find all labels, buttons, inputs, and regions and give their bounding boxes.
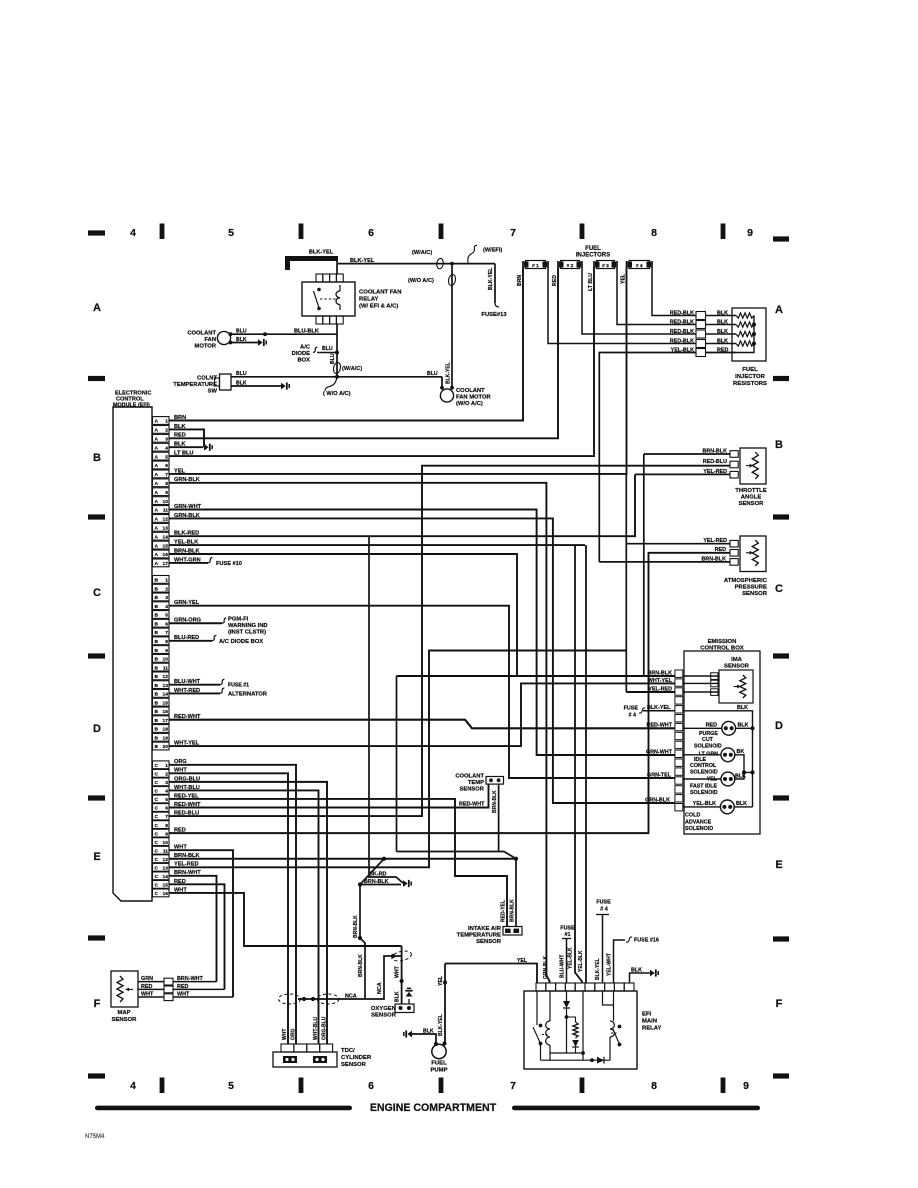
svg-text:B: B bbox=[155, 657, 159, 663]
IMA sensor connector bbox=[711, 673, 718, 696]
svg-text:BLU: BLU bbox=[330, 353, 336, 364]
svg-text:RELAY: RELAY bbox=[359, 297, 378, 303]
svg-text:7: 7 bbox=[165, 472, 168, 478]
svg-text:#1: #1 bbox=[565, 932, 571, 938]
atmospheric pressure sensor element bbox=[746, 540, 758, 566]
svg-text:B: B bbox=[155, 665, 159, 671]
svg-text:12: 12 bbox=[163, 517, 169, 523]
svg-text:A: A bbox=[155, 543, 159, 549]
EFI main relay box bbox=[524, 991, 637, 1069]
svg-text:BLK-YEL: BLK-YEL bbox=[595, 958, 601, 980]
svg-text:YEL-RED: YEL-RED bbox=[648, 686, 672, 692]
wire A12 GRN-BLK to cold advance solenoid bbox=[169, 513, 675, 803]
svg-text:B: B bbox=[155, 595, 159, 601]
EFI main relay connector bbox=[536, 983, 634, 991]
svg-text:SENSOR: SENSOR bbox=[742, 591, 768, 597]
throttle angle sensor box bbox=[740, 448, 766, 484]
svg-text:( W/O A/C): ( W/O A/C) bbox=[323, 391, 351, 397]
svg-text:C: C bbox=[155, 823, 159, 829]
svg-text:GRN-YEL: GRN-YEL bbox=[174, 600, 200, 606]
svg-text:RED-YEL: RED-YEL bbox=[174, 793, 199, 799]
svg-text:11: 11 bbox=[163, 665, 168, 671]
wire YEL-BLK resistor row5 to atmospheric branch bbox=[599, 353, 696, 562]
svg-text:ALTERNATOR: ALTERNATOR bbox=[228, 691, 268, 697]
svg-text:6: 6 bbox=[165, 621, 168, 627]
TDC harness connector loops bbox=[279, 994, 340, 1004]
wire A14 BLK-RED to throttle sensor branch bbox=[169, 474, 635, 536]
svg-text:RED-BLU: RED-BLU bbox=[174, 810, 199, 816]
svg-text:YEL: YEL bbox=[438, 975, 444, 986]
svg-text:GRN-WHT: GRN-WHT bbox=[174, 504, 202, 510]
svg-text:9: 9 bbox=[743, 1080, 749, 1092]
svg-text:B: B bbox=[155, 718, 159, 724]
svg-text:C: C bbox=[93, 587, 101, 599]
wire BRN-BLK coolant temp sensor down bbox=[492, 784, 499, 851]
svg-text:BLK: BLK bbox=[395, 991, 401, 1002]
wire RED-YEL intake label bbox=[501, 900, 507, 922]
svg-text:SOLENOID: SOLENOID bbox=[690, 770, 718, 776]
svg-text:D: D bbox=[775, 720, 783, 732]
svg-text:COOLANT FAN: COOLANT FAN bbox=[359, 290, 402, 296]
svg-text:7: 7 bbox=[165, 630, 168, 636]
svg-text:14: 14 bbox=[163, 534, 169, 540]
TDC wire labels bbox=[282, 1016, 328, 1040]
wire C5 RED-YEL to intake air temp sensor bbox=[169, 793, 507, 927]
svg-text:A: A bbox=[155, 517, 159, 523]
svg-text:2: 2 bbox=[165, 428, 168, 434]
ground for coolant fan motor bbox=[258, 339, 266, 346]
svg-text:RED: RED bbox=[141, 984, 152, 990]
svg-text:B: B bbox=[775, 439, 783, 451]
svg-text:YEL-RED: YEL-RED bbox=[174, 862, 199, 868]
svg-text:BRN-BLK: BRN-BLK bbox=[701, 556, 726, 562]
coolant fan relay label bbox=[359, 290, 402, 310]
svg-text:YEL-WHT: YEL-WHT bbox=[607, 953, 613, 976]
svg-text:YEL: YEL bbox=[621, 273, 627, 284]
svg-text:C: C bbox=[155, 797, 159, 803]
svg-text:RED-WHT: RED-WHT bbox=[174, 802, 201, 808]
wire YEL-RED interconnect bbox=[625, 474, 627, 543]
svg-text:SENSOR: SENSOR bbox=[341, 1062, 367, 1068]
svg-text:BLU-WHT: BLU-WHT bbox=[560, 955, 566, 978]
svg-text:SOLENOID: SOLENOID bbox=[694, 744, 722, 750]
wire GRN-BLK label at emission box bbox=[645, 797, 670, 803]
svg-text:C: C bbox=[155, 814, 159, 820]
svg-text:A: A bbox=[155, 534, 159, 540]
svg-text:FUEL: FUEL bbox=[431, 1061, 447, 1067]
svg-text:WHT-YEL: WHT-YEL bbox=[174, 740, 200, 746]
connector W/A/C on BLU wire bbox=[333, 362, 363, 374]
svg-text:INJECTORS: INJECTORS bbox=[576, 253, 610, 259]
svg-text:B: B bbox=[155, 586, 159, 592]
svg-text:COLD: COLD bbox=[685, 813, 700, 819]
wire GRN-YEL label at emission box bbox=[647, 772, 672, 778]
svg-text:YEL-BLK: YEL-BLK bbox=[671, 348, 694, 354]
svg-text:RED-YEL: RED-YEL bbox=[501, 900, 507, 922]
svg-text:BRN-BLK: BRN-BLK bbox=[358, 954, 364, 977]
wire WHT oxygen sensor bbox=[395, 946, 404, 1004]
svg-text:BRN-BLK: BRN-BLK bbox=[702, 448, 727, 454]
wire A11 GRN-WHT to idle control solenoid bbox=[169, 504, 675, 755]
wire C14 BRN-WHT to MAP sensor bbox=[169, 870, 217, 981]
svg-text:# 4: # 4 bbox=[600, 907, 608, 913]
svg-text:RED: RED bbox=[174, 828, 186, 834]
svg-text:YEL-BLK: YEL-BLK bbox=[568, 947, 574, 969]
wire A5 LT BLU to injector 3 bbox=[169, 268, 594, 457]
wire BLK-YEL branch down to coolant fan motor W/O A/C bbox=[450, 262, 454, 388]
svg-text:8: 8 bbox=[165, 639, 168, 645]
svg-text:FUSE: FUSE bbox=[596, 900, 611, 906]
svg-text:INJECTOR: INJECTOR bbox=[735, 374, 765, 380]
svg-text:C: C bbox=[155, 789, 159, 795]
wire RED-BLU throttle label bbox=[703, 459, 727, 465]
svg-text:B: B bbox=[155, 744, 159, 750]
svg-text:13: 13 bbox=[163, 526, 169, 532]
TDC cylinder sensor bbox=[273, 1044, 372, 1068]
wire BRN-BLK intake sensor bbox=[510, 859, 517, 927]
svg-text:9: 9 bbox=[165, 490, 168, 496]
wire A3 RED to injector 2 bbox=[169, 268, 558, 439]
svg-text:WHT: WHT bbox=[174, 768, 187, 774]
IMA sensor element bbox=[734, 675, 746, 698]
fuse 13 label bbox=[481, 312, 507, 318]
svg-text:4: 4 bbox=[165, 789, 168, 795]
svg-text:YEL-BLK: YEL-BLK bbox=[174, 540, 198, 546]
wire A14 branch to ground BK-RD bbox=[369, 536, 403, 883]
fuel injector resistors box bbox=[732, 308, 766, 361]
svg-text:TEMPERATURE: TEMPERATURE bbox=[457, 933, 501, 939]
svg-text:8: 8 bbox=[651, 1080, 657, 1092]
fuse 4 tap at emission box bbox=[624, 705, 675, 718]
coolant fan relay coil bbox=[336, 285, 340, 310]
wire A1 BRN to injector 1 bbox=[169, 268, 523, 421]
svg-text:BLK: BLK bbox=[735, 773, 746, 779]
ground for A2/A4 bbox=[204, 444, 212, 451]
svg-text:RED-BLK: RED-BLK bbox=[670, 339, 694, 345]
svg-text:BLK-YEL: BLK-YEL bbox=[488, 267, 494, 290]
svg-text:BK: BK bbox=[737, 749, 745, 755]
svg-text:BRN-BLK: BRN-BLK bbox=[174, 548, 199, 554]
svg-text:B: B bbox=[155, 613, 159, 619]
coolant fan relay bottom connector bbox=[316, 316, 343, 324]
svg-text:4: 4 bbox=[165, 604, 168, 610]
svg-text:F: F bbox=[94, 998, 101, 1010]
wire C7 RED-BLU to throttle angle sensor bbox=[169, 466, 730, 817]
svg-text:BLK-YEL: BLK-YEL bbox=[446, 362, 452, 384]
electronic control module (EFI) label bbox=[113, 391, 151, 409]
svg-text:C: C bbox=[155, 780, 159, 786]
svg-text:9: 9 bbox=[165, 831, 168, 837]
wire YEL-RED IMA inside bbox=[648, 686, 719, 692]
ground for EFI main relay bbox=[650, 969, 658, 976]
wire BLU-BLK fan motor to relay bbox=[231, 329, 338, 337]
right margin dashes bbox=[773, 236, 789, 1078]
svg-text:10: 10 bbox=[163, 840, 169, 846]
svg-text:FAN MOTOR: FAN MOTOR bbox=[456, 395, 491, 401]
svg-text:ORG: ORG bbox=[174, 759, 187, 765]
svg-text:YEL-RED: YEL-RED bbox=[703, 469, 727, 475]
svg-text:EMISSION: EMISSION bbox=[708, 639, 737, 645]
wire YEL-BLK second into relay pin5 bbox=[578, 545, 586, 983]
svg-text:NCA: NCA bbox=[377, 982, 383, 994]
svg-text:FUSE #16: FUSE #16 bbox=[634, 938, 659, 944]
coolant fan motor W/O A/C bbox=[440, 362, 491, 407]
svg-text:BOX: BOX bbox=[297, 358, 310, 364]
ECM connector C pins C1-C16 bbox=[153, 761, 170, 897]
svg-text:PUMP: PUMP bbox=[430, 1068, 447, 1074]
svg-text:B: B bbox=[155, 604, 159, 610]
svg-text:7: 7 bbox=[510, 227, 516, 239]
svg-text:12: 12 bbox=[163, 857, 169, 863]
wire C6 RED-WHT to coolant temp sensor bbox=[169, 784, 489, 808]
svg-text:IDLE: IDLE bbox=[694, 757, 707, 763]
svg-text:FUSE: FUSE bbox=[560, 926, 575, 932]
fuel injector resistor elements bbox=[706, 313, 757, 353]
wire BLK-YEL fuel pump bbox=[438, 964, 447, 1045]
relay GRN-BLK label bbox=[543, 956, 549, 979]
corner mark bbox=[85, 1134, 105, 1140]
svg-text:ORG-BLU: ORG-BLU bbox=[322, 1016, 328, 1040]
atmospheric pressure sensor box bbox=[740, 536, 766, 572]
fuel injectors title bbox=[576, 246, 610, 259]
svg-text:B: B bbox=[155, 700, 159, 706]
coolant fan relay contacts bbox=[314, 288, 338, 311]
svg-text:RED-BLK: RED-BLK bbox=[670, 329, 694, 335]
wire BLU temp switch to fan motor W/O A/C bbox=[231, 371, 442, 379]
svg-text:B: B bbox=[93, 452, 101, 464]
svg-text:YEL: YEL bbox=[707, 777, 718, 783]
wire GRN-WHT label at emission box bbox=[646, 749, 673, 755]
wire B14 WHT-RED to alternator bbox=[169, 688, 220, 694]
svg-text:COLNT: COLNT bbox=[197, 376, 217, 382]
svg-text:6: 6 bbox=[165, 806, 168, 812]
svg-text:WHT-BLU: WHT-BLU bbox=[174, 785, 200, 791]
resistor pack wires bbox=[706, 316, 737, 353]
svg-text:TDC/: TDC/ bbox=[341, 1048, 355, 1054]
svg-text:DIODE: DIODE bbox=[292, 351, 310, 357]
svg-text:GRN: GRN bbox=[141, 976, 153, 982]
svg-text:4: 4 bbox=[130, 1080, 136, 1092]
svg-text:(INST CLSTR): (INST CLSTR) bbox=[228, 629, 266, 635]
resistor connector wire labels left bbox=[670, 311, 694, 354]
svg-text:5: 5 bbox=[165, 797, 168, 803]
svg-text:15: 15 bbox=[163, 883, 169, 889]
svg-text:BLK: BLK bbox=[236, 380, 247, 386]
svg-text:11: 11 bbox=[163, 848, 168, 854]
svg-text:C: C bbox=[155, 874, 159, 880]
svg-text:3: 3 bbox=[165, 780, 168, 786]
svg-text:SENSOR: SENSOR bbox=[460, 787, 485, 793]
wire A15 YEL-BLK to EFI main relay bbox=[169, 540, 585, 546]
svg-text:BRN-BLK: BRN-BLK bbox=[647, 670, 672, 676]
svg-text:B: B bbox=[155, 621, 159, 627]
svg-text:RED-WHT: RED-WHT bbox=[647, 723, 673, 729]
svg-text:19: 19 bbox=[163, 735, 169, 741]
alternator tap bbox=[220, 688, 268, 697]
svg-text:SOLENOID: SOLENOID bbox=[685, 826, 713, 832]
svg-text:BLK: BLK bbox=[423, 1028, 434, 1034]
wire RED MAP bbox=[138, 984, 164, 990]
coolant fan relay top connector bbox=[316, 274, 343, 282]
svg-text:WHT-GRN: WHT-GRN bbox=[174, 557, 201, 563]
wire NCA link bbox=[298, 954, 402, 1001]
svg-text:(W/O A/C): (W/O A/C) bbox=[408, 278, 434, 284]
svg-text:RED: RED bbox=[174, 879, 186, 885]
ground for fuel pump bbox=[404, 1030, 412, 1037]
svg-text:GRN-BLK: GRN-BLK bbox=[645, 797, 670, 803]
svg-text:SENSOR: SENSOR bbox=[476, 939, 502, 945]
coolant fan relay feed bar BLK-YEL bbox=[285, 250, 338, 271]
atmospheric pressure sensor label bbox=[724, 578, 768, 597]
svg-text:ANGLE: ANGLE bbox=[741, 495, 762, 501]
svg-text:C: C bbox=[155, 772, 159, 778]
wire A17 WHT-GRN to fuse 10 bbox=[169, 557, 208, 563]
wire B17 RED-WHT to purge cut solenoid bbox=[169, 714, 675, 728]
svg-text:BLU-BLK: BLU-BLK bbox=[294, 329, 319, 335]
svg-text:BLK-YEL: BLK-YEL bbox=[309, 250, 334, 256]
svg-text:SENSOR: SENSOR bbox=[112, 1017, 138, 1023]
wire WHT MAP right bbox=[173, 991, 233, 997]
svg-text:C: C bbox=[775, 583, 783, 595]
wire BRN-BLK throttle sensor bbox=[644, 448, 730, 454]
W/O A/C dangling connector bbox=[323, 377, 351, 397]
fuel injector resistors connector bbox=[696, 312, 706, 357]
svg-text:FAN: FAN bbox=[204, 337, 216, 343]
svg-text:5: 5 bbox=[228, 1080, 234, 1092]
svg-text:BRN-BLK: BRN-BLK bbox=[492, 790, 498, 813]
svg-text:A: A bbox=[155, 472, 159, 478]
ground for temp switch bbox=[281, 382, 289, 389]
wire BLK temp switch to ground bbox=[231, 380, 281, 386]
wire BLK-YEL relay to right bbox=[338, 258, 495, 264]
svg-text:BLU: BLU bbox=[427, 371, 438, 377]
svg-text:FAST IDLE: FAST IDLE bbox=[690, 783, 718, 789]
svg-text:6: 6 bbox=[368, 1080, 374, 1092]
right row letters bbox=[775, 304, 783, 1010]
svg-text:BLU: BLU bbox=[322, 346, 333, 352]
fuel pump bbox=[430, 1042, 447, 1074]
wire injector 3 to resistor row2 bbox=[617, 268, 696, 325]
svg-text:SENSOR: SENSOR bbox=[739, 501, 765, 507]
svg-text:14: 14 bbox=[163, 874, 169, 880]
svg-text:YEL: YEL bbox=[174, 468, 185, 474]
bottom column ruler bbox=[130, 1078, 749, 1094]
fuel injector resistors label bbox=[733, 367, 767, 387]
svg-text:WHT: WHT bbox=[282, 1029, 288, 1040]
svg-text:FUSE #10: FUSE #10 bbox=[216, 561, 242, 567]
svg-text:YEL-BLK: YEL-BLK bbox=[578, 950, 584, 972]
wire injector 1 to resistor row4 bbox=[548, 268, 696, 344]
svg-text:7: 7 bbox=[165, 814, 168, 820]
svg-text:(W/EFI): (W/EFI) bbox=[483, 248, 502, 254]
wire C3 ORG-BLU to TDC sensor bbox=[169, 776, 327, 1044]
svg-text:ORG: ORG bbox=[291, 1029, 297, 1041]
wire C12 BRN-BLK ground bus bbox=[169, 853, 516, 859]
svg-text:A: A bbox=[155, 428, 159, 434]
svg-text:C: C bbox=[155, 848, 159, 854]
svg-text:BLK-RED: BLK-RED bbox=[174, 531, 199, 537]
svg-text:C: C bbox=[155, 806, 159, 812]
ground for BLK-RED and BRN-BLK bbox=[403, 880, 411, 887]
connector W/O A/C on branch bbox=[408, 274, 456, 286]
svg-text:1: 1 bbox=[165, 578, 168, 584]
wire B8 BLU-RED to A/C diode box bbox=[169, 635, 212, 641]
ENGINE COMPARTMENT footer bbox=[95, 1102, 760, 1114]
svg-text:LT BLU: LT BLU bbox=[588, 273, 594, 291]
svg-text:B: B bbox=[155, 639, 159, 645]
svg-text:8: 8 bbox=[651, 227, 657, 239]
wire BLK fan motor to ground bbox=[231, 337, 259, 343]
svg-text:BLK-YEL: BLK-YEL bbox=[647, 705, 671, 711]
wire WHT MAP bbox=[138, 991, 164, 997]
svg-text:ADVANCE: ADVANCE bbox=[685, 819, 712, 825]
svg-text:A: A bbox=[155, 526, 159, 532]
svg-text:IMA: IMA bbox=[731, 657, 743, 663]
svg-text:9: 9 bbox=[165, 648, 168, 654]
idle control solenoid bbox=[683, 748, 755, 776]
svg-text:BLU-RED: BLU-RED bbox=[174, 635, 199, 641]
svg-text:20: 20 bbox=[163, 744, 169, 750]
wire BRN-WHT MAP right bbox=[173, 976, 217, 982]
MAP sensor label bbox=[112, 1010, 138, 1023]
wire C2 WHT to TDC sensor bbox=[169, 768, 288, 1044]
fuel injector 2 bbox=[552, 261, 582, 287]
wire C1 ORG to TDC sensor bbox=[169, 759, 296, 1044]
svg-text:WHT-BLU: WHT-BLU bbox=[313, 1017, 319, 1040]
svg-text:14: 14 bbox=[163, 692, 169, 698]
svg-text:BRN: BRN bbox=[517, 275, 523, 286]
svg-text:RED: RED bbox=[715, 547, 726, 553]
svg-text:C: C bbox=[155, 883, 159, 889]
svg-text:PGM-FI: PGM-FI bbox=[228, 616, 249, 622]
svg-text:4: 4 bbox=[165, 445, 168, 451]
wire BLK fuel pump ground bbox=[412, 1028, 436, 1044]
svg-text:5: 5 bbox=[165, 613, 168, 619]
svg-text:FUSE#13: FUSE#13 bbox=[481, 312, 507, 318]
svg-text:BLU: BLU bbox=[236, 371, 247, 377]
svg-text:ENGINE COMPARTMENT: ENGINE COMPARTMENT bbox=[370, 1102, 497, 1114]
svg-text:COOLANT: COOLANT bbox=[456, 388, 485, 394]
wire WHT-YEL IMA inside bbox=[648, 678, 719, 684]
svg-text:15: 15 bbox=[163, 543, 169, 549]
svg-text:OXYGEN: OXYGEN bbox=[371, 1006, 396, 1012]
svg-text:ORG-BLU: ORG-BLU bbox=[174, 776, 200, 782]
svg-text:BRN-BLK: BRN-BLK bbox=[353, 915, 359, 938]
svg-text:FUEL: FUEL bbox=[585, 246, 601, 252]
top column ruler bbox=[130, 224, 753, 240]
wire RED MAP right bbox=[173, 984, 225, 990]
wire C9 RED to atmospheric pressure sensor bbox=[169, 553, 730, 834]
svg-text:BLK: BLK bbox=[174, 442, 186, 448]
svg-text:3: 3 bbox=[165, 437, 168, 443]
svg-text:# 2: # 2 bbox=[567, 263, 574, 269]
svg-text:BRN-BLK: BRN-BLK bbox=[510, 899, 516, 922]
svg-text:WARNING IND: WARNING IND bbox=[228, 623, 268, 629]
wire YEL-RED atmospheric bbox=[626, 538, 730, 544]
svg-text:WHT: WHT bbox=[174, 845, 187, 851]
svg-text:A: A bbox=[155, 419, 159, 425]
svg-text:A: A bbox=[775, 304, 783, 316]
MAP sensor element bbox=[117, 976, 133, 1002]
svg-text:A/C: A/C bbox=[300, 345, 311, 351]
svg-text:YEL-RED: YEL-RED bbox=[703, 538, 727, 544]
svg-text:BRN-BLK: BRN-BLK bbox=[364, 879, 389, 885]
fuel injector 1 bbox=[517, 261, 548, 287]
svg-text:3: 3 bbox=[165, 595, 168, 601]
fuel injector 4 bbox=[621, 261, 653, 285]
svg-text:MOTOR: MOTOR bbox=[195, 344, 217, 350]
svg-text:BRN-BLK: BRN-BLK bbox=[174, 853, 199, 859]
